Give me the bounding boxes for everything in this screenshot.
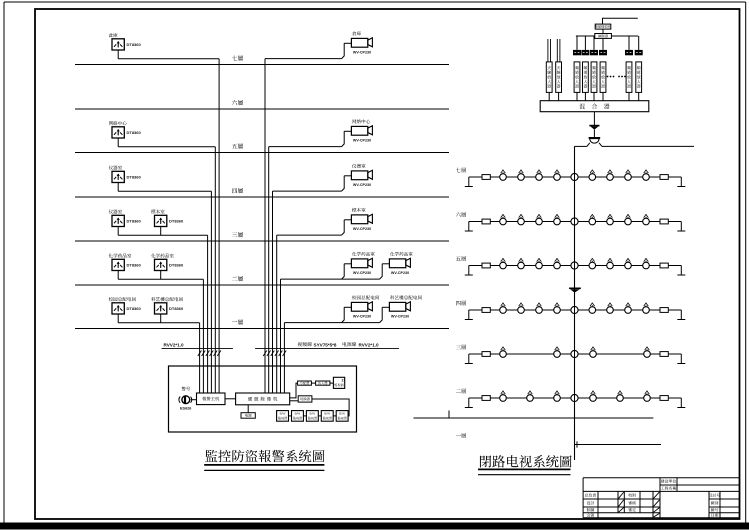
row right end bracket bbox=[677, 310, 685, 320]
CCTV row line 二层 bbox=[469, 397, 682, 399]
value label WV-CP230 bbox=[391, 271, 409, 275]
row left end bracket bbox=[465, 177, 473, 187]
subscriber tap x=557 七层 bbox=[554, 170, 561, 181]
trunk amplifier 2 bbox=[569, 288, 581, 292]
label 仪器室 bbox=[109, 210, 122, 214]
svg-text:RVV2*1.0: RVV2*1.0 bbox=[164, 343, 185, 348]
value label WV-CP230 bbox=[353, 227, 371, 231]
wire amp to mixer x=603 bbox=[602, 92, 604, 100]
wire amp to splitter bbox=[593, 130, 595, 138]
title 监控防盗报警系统图 bbox=[205, 450, 324, 462]
motion detector DT8360 (仓库) bbox=[112, 39, 124, 50]
monitor 3 监视器 bbox=[306, 411, 318, 422]
wire amp to mixer x=594 bbox=[593, 92, 595, 100]
wire head-end top stub bbox=[603, 18, 638, 24]
row right end bracket bbox=[677, 177, 685, 187]
svg-text:WV-CP230: WV-CP230 bbox=[391, 271, 409, 275]
motion detector DT8360 (化学药品室) bbox=[112, 259, 124, 270]
svg-text:DT8360: DT8360 bbox=[169, 306, 184, 311]
label 化学药品室 (camera) bbox=[352, 252, 375, 256]
CCTV row line 三层 bbox=[469, 353, 682, 355]
subscriber tap x=539 七层 bbox=[536, 170, 543, 181]
svg-text:WV-CP230: WV-CP230 bbox=[391, 315, 409, 319]
subscriber tap x=646 七层 bbox=[643, 170, 650, 181]
monitor 2 监视器 bbox=[292, 411, 304, 422]
attenuator (black) x=585 bbox=[581, 50, 589, 55]
cable label 视频线SYV75-5-8 电源线RVV2*1.0 bbox=[298, 342, 379, 347]
wire alarm run floor y=152 bbox=[118, 146, 215, 148]
monitor 5 监视器 bbox=[336, 411, 348, 422]
wire monitor link 3 bbox=[318, 415, 321, 417]
terminator left (row 五层) bbox=[482, 263, 490, 268]
terminator left (row 四层) bbox=[482, 308, 490, 313]
cable tick x=215 bbox=[214, 351, 218, 357]
series distributor on trunk (row 六层) bbox=[571, 218, 578, 225]
subscriber tap x=521 四层 bbox=[518, 303, 525, 314]
CCTV row line 五层 bbox=[469, 265, 682, 267]
wire monitor link 1 bbox=[289, 415, 292, 417]
wire sounder to alarm host bbox=[191, 399, 197, 401]
subscriber tap x=592 七层 bbox=[589, 170, 596, 181]
cable tick x=265 bbox=[263, 351, 267, 357]
wire detector drop (仓库) bbox=[117, 50, 119, 59]
subscriber tap x=646 六层 bbox=[643, 214, 650, 225]
camera WV-CP230 (化学药品室) bbox=[342, 258, 373, 279]
wire bus drop x=629 bbox=[628, 36, 630, 50]
wire alarm host to DVR bbox=[225, 398, 236, 400]
wire alarm riser x=219 bbox=[218, 59, 220, 393]
subscriber tap x=592 四层 bbox=[589, 303, 596, 314]
label 标本室 (camera) bbox=[352, 208, 365, 212]
subscriber tap x=593 三层 bbox=[590, 347, 597, 358]
floor label 七层 (CCTV) bbox=[456, 168, 466, 173]
modulator box 调制器 bbox=[595, 34, 612, 39]
wire video riser x=277 bbox=[276, 235, 278, 393]
floor line 一层 (security diagram) bbox=[75, 328, 449, 330]
cable tick x=200 bbox=[198, 351, 202, 357]
value label DT8360 bbox=[169, 263, 184, 268]
svg-text:DT8360: DT8360 bbox=[127, 130, 142, 135]
trunk amplifier 1 bbox=[589, 126, 599, 130]
motion detector DT8360 (仪器室) bbox=[112, 215, 124, 226]
title underline 2 bbox=[204, 469, 324, 471]
svg-text:SYV75*5*8: SYV75*5*8 bbox=[314, 342, 337, 347]
main monitor 监视器 bbox=[333, 377, 345, 388]
value label WV-CP230 bbox=[391, 315, 409, 319]
wire alarm run floor y=285 bbox=[118, 278, 203, 280]
subscriber tap x=557 二层 bbox=[554, 391, 561, 402]
CCTV trunk riser bbox=[574, 146, 576, 460]
title block slashes bbox=[619, 492, 660, 517]
subscriber tap x=539 六层 bbox=[536, 214, 543, 225]
value label DT8360 bbox=[169, 306, 184, 311]
subscriber tap x=610 四层 bbox=[607, 303, 614, 314]
row left end bracket bbox=[465, 310, 473, 320]
floor line 三层 (security diagram) bbox=[75, 240, 449, 242]
wire bus drop x=603 bbox=[602, 38, 604, 50]
subscriber tap x=592 六层 bbox=[589, 214, 596, 225]
camera WV-CP230 (化学药品室) bbox=[380, 258, 411, 279]
svg-text:WV-CP230: WV-CP230 bbox=[353, 139, 371, 143]
cable tick x=211 bbox=[210, 351, 214, 357]
label 网络中心 (camera) bbox=[352, 119, 370, 123]
title 闭路电视系统图 bbox=[480, 455, 572, 467]
wire detector drop (标本室) bbox=[160, 227, 162, 236]
svg-text:B/W: B/W bbox=[324, 412, 330, 416]
antenna feeder x=549 bbox=[548, 39, 551, 62]
wire alarm riser x=200 bbox=[199, 323, 201, 393]
wire video riser x=272 bbox=[272, 191, 274, 393]
wire amp to mixer x=639 bbox=[638, 92, 640, 100]
mixer 混合器 bbox=[540, 101, 649, 112]
wire distributor link bbox=[311, 382, 315, 384]
label 化学药品室 bbox=[109, 254, 132, 258]
two-way splitter bbox=[587, 138, 602, 147]
floor label 一层 (security diagram) bbox=[232, 319, 243, 324]
monitor 4 监视器 bbox=[321, 411, 333, 422]
camera WV-CP230 (科艺楼总配电间) bbox=[380, 302, 411, 323]
wire video riser x=280 bbox=[280, 279, 282, 393]
wire monitor link 2 bbox=[303, 415, 306, 417]
terminator left (row 三层) bbox=[482, 352, 490, 357]
attenuator (black) x=629 bbox=[625, 50, 633, 55]
floor label 五层 (security diagram) bbox=[232, 143, 243, 148]
wire antenna to mixer x=559 bbox=[558, 92, 560, 100]
wire amp to mixer x=585 bbox=[584, 92, 586, 100]
subscriber tap x=557 四层 bbox=[554, 303, 561, 314]
camera WV-CP230 (网络中心) bbox=[342, 126, 373, 147]
terminator right (row 三层) bbox=[660, 352, 668, 357]
label 科艺楼总配电间 (camera) bbox=[390, 295, 422, 299]
subscriber tap x=521 七层 bbox=[518, 170, 525, 181]
svg-text:21: 21 bbox=[342, 378, 346, 382]
sheet bottom black bar bbox=[0, 523, 749, 530]
series distributor on trunk (row 四层) bbox=[571, 306, 578, 313]
subscriber tap x=646 五层 bbox=[643, 258, 650, 269]
row right end bracket bbox=[677, 398, 685, 408]
label 化学药品室 bbox=[151, 254, 174, 258]
svg-text:WV-CP230: WV-CP230 bbox=[353, 271, 371, 275]
CCTV row line 七层 bbox=[469, 176, 682, 178]
row right end bracket bbox=[677, 266, 685, 276]
subscriber tap x=646 四层 bbox=[643, 303, 650, 314]
wire video run floor y=152 bbox=[269, 146, 342, 148]
subscriber tap x=620 二层 bbox=[617, 391, 624, 402]
svg-text:DT8360: DT8360 bbox=[127, 219, 142, 224]
wire splitter right branch bbox=[602, 145, 694, 147]
floor label 六层 (security diagram) bbox=[232, 100, 243, 105]
wire detector drop (仪器室) bbox=[117, 183, 119, 192]
label 警号 bbox=[182, 387, 190, 391]
attenuator (black) x=577 bbox=[573, 50, 581, 55]
value label ES626 bbox=[180, 406, 191, 410]
alarm host 报警主机 bbox=[197, 393, 226, 405]
series distributor on trunk (row 五层) bbox=[571, 262, 578, 269]
motion detector DT8360 (网络中心) bbox=[112, 127, 124, 138]
wire detector drop (网络中心) bbox=[117, 138, 119, 147]
channel amplifier 频道放大器 x=594 bbox=[591, 62, 597, 93]
wire bus drop x=577 bbox=[576, 36, 578, 50]
camera WV-CP230 (校园总配电间) bbox=[342, 302, 373, 323]
label 科艺楼总配电间 bbox=[151, 297, 183, 301]
wire DVR to switcher bbox=[290, 400, 299, 402]
wire switcher to monitor row bbox=[312, 399, 349, 416]
camera WV-CP230 (仓库) bbox=[342, 38, 373, 59]
terminator right (row 五层) bbox=[660, 263, 668, 268]
hard disk recorder 硬盘录像机 bbox=[236, 393, 290, 405]
svg-text:B/W: B/W bbox=[295, 412, 301, 416]
wire splitter left to trunk bbox=[574, 145, 587, 147]
value label DT8360 bbox=[127, 306, 142, 311]
floor label 五层 (CCTV) bbox=[456, 256, 466, 261]
svg-text:RVV2*1.0: RVV2*1.0 bbox=[359, 342, 380, 347]
subscriber tap x=557 六层 bbox=[554, 214, 561, 225]
series distributor on trunk (row 三层) bbox=[571, 350, 578, 357]
subscriber tap x=539 四层 bbox=[536, 303, 543, 314]
wire mixer output bbox=[593, 112, 595, 125]
value label DT8360 bbox=[127, 219, 142, 224]
label 仓库 (camera) bbox=[352, 31, 361, 35]
satellite receiver box bbox=[595, 24, 612, 29]
wire alarm run floor y=64 bbox=[118, 58, 219, 60]
terminator right (row 二层) bbox=[660, 396, 668, 401]
svg-text:DT8360: DT8360 bbox=[169, 219, 184, 224]
subscriber tap x=557 五层 bbox=[554, 258, 561, 269]
value label DT8360 bbox=[127, 263, 142, 268]
cable tick x=277 bbox=[275, 351, 279, 357]
wire video riser x=269 bbox=[268, 147, 270, 393]
CCTV first floor branch bbox=[575, 441, 662, 447]
label 化学药品室 (camera) bbox=[390, 252, 413, 256]
motion detector DT8360 (化学药品室) bbox=[155, 259, 167, 270]
value label DT8360 bbox=[169, 219, 184, 224]
antenna feeder x=559 bbox=[557, 39, 560, 62]
cable tick x=269 bbox=[267, 351, 271, 357]
wire alarm riser x=203 bbox=[202, 279, 204, 393]
subscriber tap x=610 六层 bbox=[607, 214, 614, 225]
camera WV-CP230 (仪器室) bbox=[342, 170, 373, 191]
power box 电源 bbox=[241, 413, 255, 419]
subscriber tap x=521 五层 bbox=[518, 258, 525, 269]
motion detector DT8360 (标本室) bbox=[155, 215, 167, 226]
subscriber tap x=503 三层 bbox=[500, 347, 507, 358]
motion detector DT8360 (科艺楼总配电间) bbox=[155, 303, 167, 314]
svg-text:DT8360: DT8360 bbox=[169, 263, 184, 268]
svg-text:DT8360: DT8360 bbox=[127, 175, 142, 180]
subscriber tap x=610 七层 bbox=[607, 170, 614, 181]
floor label 二层 (security diagram) bbox=[232, 276, 243, 281]
subscriber tap x=503 五层 bbox=[500, 258, 507, 269]
subscriber tap x=628 五层 bbox=[625, 258, 632, 269]
floor label 一层 (CCTV) bbox=[456, 433, 466, 438]
wire receiver to modulator bbox=[602, 29, 604, 33]
attenuator (black) x=639 bbox=[635, 50, 643, 55]
terminator left (row 六层) bbox=[482, 219, 490, 224]
label 校园总配电间 bbox=[109, 297, 136, 301]
row left end bracket bbox=[465, 354, 473, 364]
svg-text:WV-CP230: WV-CP230 bbox=[353, 315, 371, 319]
value label DT8360 bbox=[127, 130, 142, 135]
row right end bracket bbox=[677, 354, 685, 364]
floor line 六层 (security diagram) bbox=[75, 108, 449, 110]
wire video run floor y=64 bbox=[265, 58, 342, 60]
wire alarm riser x=208 bbox=[207, 235, 209, 393]
value label DT8360 bbox=[127, 175, 142, 180]
wire video run floor y=241 bbox=[277, 234, 342, 236]
floor line 二层 (security diagram) bbox=[75, 284, 449, 286]
floor label 四层 (security diagram) bbox=[232, 188, 243, 193]
cable tick x=203 bbox=[202, 351, 206, 357]
video switcher 切换器 bbox=[298, 396, 312, 402]
label 仪器室 bbox=[109, 166, 122, 170]
series distributor on trunk (row 七层) bbox=[571, 173, 578, 180]
svg-text:B/W: B/W bbox=[280, 412, 286, 416]
cable tick x=280 bbox=[279, 351, 283, 357]
leader line video bundle bbox=[255, 347, 399, 349]
wire video run floor y=197 bbox=[273, 190, 342, 192]
subscriber tap x=503 四层 bbox=[500, 303, 507, 314]
value label DT8360 bbox=[127, 42, 142, 47]
subscriber tap x=593 二层 bbox=[590, 391, 597, 402]
leader line alarm bundle bbox=[162, 347, 234, 349]
subscriber tap x=503 六层 bbox=[500, 214, 507, 225]
subscriber tap x=628 六层 bbox=[625, 214, 632, 225]
channel amplifier 频道放大器 x=629 bbox=[626, 62, 632, 93]
subscriber tap x=610 五层 bbox=[607, 258, 614, 269]
video distributor box bbox=[298, 381, 312, 385]
wire bus drop x=585 bbox=[584, 36, 586, 50]
wire amp to mixer x=577 bbox=[576, 92, 578, 100]
channel amplifier 频道放大器 x=639 bbox=[636, 62, 642, 93]
label 校园总配电间 (camera) bbox=[352, 295, 379, 299]
title block labels bbox=[585, 479, 720, 516]
CCTV first floor slab line bbox=[414, 411, 654, 419]
subscriber tap x=539 五层 bbox=[536, 258, 543, 269]
wire to main monitor bbox=[330, 382, 334, 384]
alarm sounder symbol 警号 bbox=[179, 396, 192, 404]
cable label RVV2*1.0 (alarm bundle) bbox=[164, 343, 185, 348]
wire alarm run floor y=241 bbox=[118, 234, 207, 236]
ellipsis dots bbox=[607, 76, 626, 78]
terminator right (row 四层) bbox=[660, 308, 668, 313]
row left end bracket bbox=[465, 266, 473, 276]
wire detector drop (科艺楼总配电间) bbox=[160, 314, 162, 323]
floor label 三层 (CCTV) bbox=[456, 345, 466, 350]
wire antenna to mixer x=549 bbox=[548, 92, 550, 100]
subscriber tap x=592 五层 bbox=[589, 258, 596, 269]
label 网络中心 bbox=[109, 121, 127, 125]
cable tick x=208 bbox=[206, 351, 210, 357]
channel amplifier 频道放大器 x=603 bbox=[600, 62, 606, 93]
svg-text:DT8360: DT8360 bbox=[127, 42, 142, 47]
floor line 七层 (security diagram) bbox=[75, 64, 449, 66]
channel amplifier 频道放大器 x=577 bbox=[574, 62, 580, 93]
title underline 4 bbox=[478, 474, 571, 476]
floor label 六层 (CCTV) bbox=[456, 212, 466, 217]
wire DVR to power box bbox=[247, 405, 249, 413]
title underline 3 bbox=[478, 468, 571, 470]
svg-text:B/W: B/W bbox=[339, 412, 345, 416]
motion detector DT8360 (仪器室) bbox=[112, 171, 124, 182]
subscriber tap x=503 二层 bbox=[500, 391, 507, 402]
subscriber tap x=647 三层 bbox=[644, 347, 651, 358]
title block grid bbox=[583, 478, 740, 518]
attenuator (black) x=594 bbox=[590, 50, 598, 55]
CCTV row line 四层 bbox=[469, 309, 682, 311]
terminator right (row 六层) bbox=[660, 219, 668, 224]
row left end bracket bbox=[465, 398, 473, 408]
floor label 二层 (CCTV) bbox=[456, 389, 466, 394]
wire alarm run floor y=197 bbox=[118, 190, 211, 192]
value label WV-CP230 bbox=[353, 315, 371, 319]
wire video riser x=265 bbox=[264, 59, 266, 393]
motion detector DT8360 (校园总配电间) bbox=[112, 303, 124, 314]
wire head-end bus bbox=[576, 35, 638, 37]
value label WV-CP230 bbox=[353, 139, 371, 143]
wire detector drop (仪器室) bbox=[117, 227, 119, 236]
value label WV-CP230 bbox=[353, 271, 371, 275]
svg-text:B/W: B/W bbox=[309, 412, 315, 416]
svg-text:WV-CP230: WV-CP230 bbox=[353, 51, 371, 55]
wire video run floor y=328 bbox=[284, 322, 379, 324]
svg-text:WV-CP230: WV-CP230 bbox=[353, 227, 371, 231]
wire monitor link 4 bbox=[333, 415, 336, 417]
wire DVR to distributor chain bbox=[290, 383, 298, 398]
value label WV-CP230 bbox=[353, 51, 371, 55]
wire amp to mixer x=629 bbox=[628, 92, 630, 100]
row left end bracket bbox=[465, 222, 473, 232]
monitor 1 监视器 bbox=[277, 411, 289, 422]
floor label 三层 (security diagram) bbox=[232, 232, 243, 237]
terminator right (row 七层) bbox=[660, 175, 668, 180]
channel amplifier 频道放大器 x=585 bbox=[583, 62, 589, 93]
svg-text:DT8360: DT8360 bbox=[127, 306, 142, 311]
terminator left (row 二层) bbox=[482, 396, 490, 401]
floor label 七层 (security diagram) bbox=[232, 55, 243, 60]
control room enclosure bbox=[169, 366, 357, 432]
cable tick x=284 bbox=[283, 351, 287, 357]
antenna amplifier 天线放大器 x=549 bbox=[546, 62, 552, 93]
wire bus drop x=594 bbox=[593, 36, 595, 50]
label 标本室 bbox=[151, 210, 164, 214]
subscriber tap x=530 二层 bbox=[527, 391, 534, 402]
wire alarm run floor y=328 bbox=[118, 322, 199, 324]
subscriber tap x=521 六层 bbox=[518, 214, 525, 225]
cable tick x=219 bbox=[217, 351, 221, 357]
wire video riser x=284 bbox=[283, 323, 285, 393]
title underline 1 bbox=[204, 464, 324, 466]
subscriber tap x=628 四层 bbox=[625, 303, 632, 314]
camera WV-CP230 (标本室) bbox=[342, 214, 373, 235]
subscriber tap x=557 三层 bbox=[554, 347, 561, 358]
wire alarm riser x=211 bbox=[210, 191, 212, 393]
svg-text:WV-CP230: WV-CP230 bbox=[353, 183, 371, 187]
video amplifier box bbox=[316, 381, 330, 385]
value label WV-CP230 bbox=[353, 183, 371, 187]
terminator left (row 七层) bbox=[482, 175, 490, 180]
wire video run floor y=285 bbox=[281, 278, 380, 280]
attenuator (black) x=603 bbox=[599, 50, 607, 55]
floor label 四层 (CCTV) bbox=[456, 301, 466, 306]
row right end bracket bbox=[677, 222, 685, 232]
subscriber tap x=503 七层 bbox=[500, 170, 507, 181]
label 仓库 bbox=[109, 33, 118, 37]
wire detector drop (校园总配电间) bbox=[117, 314, 119, 323]
svg-text:ES626: ES626 bbox=[180, 406, 191, 410]
wire detector drop (化学药品室) bbox=[160, 271, 162, 280]
wire detector drop (化学药品室) bbox=[117, 271, 119, 280]
floor line 五层 (security diagram) bbox=[75, 152, 449, 154]
